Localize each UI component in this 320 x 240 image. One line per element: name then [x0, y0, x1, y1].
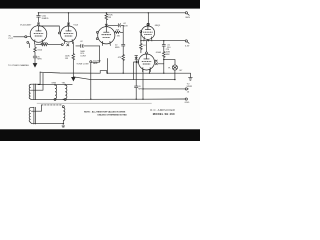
terminal output tap label [187, 42, 189, 44]
node X mark plate V2 [105, 24, 107, 26]
wire V4 bottom leads [143, 69, 150, 99]
node T2 secondary bottom dot [62, 123, 64, 125]
ground T2 ticks [62, 126, 65, 127]
node bus junction dots [107, 59, 176, 80]
capacitor C7 20MFD [135, 86, 138, 99]
resistor R4 270K [105, 13, 108, 27]
svg-text:UNLESS OTHERWISE NOTED: UNLESS OTHERWISE NOTED [97, 114, 127, 116]
wire pilot feed [164, 60, 175, 65]
node X mark pin V1B [67, 44, 69, 46]
terminal grid pins V2 [96, 31, 98, 33]
resistor R1 1500 [34, 44, 37, 56]
svg-text:470K: 470K [42, 42, 47, 44]
tube V4 label [156, 51, 162, 54]
resistor R6 value label [118, 57, 122, 59]
terminal grid pin V3 [140, 31, 142, 33]
wire interconnect light [37, 102, 152, 104]
capacitor C7 value label [138, 86, 143, 90]
wire [28, 43, 31, 48]
tube V1B label [73, 24, 78, 26]
svg-text:6CA4: 6CA4 [156, 51, 162, 54]
wire [27, 35, 30, 37]
capacitor C5 value label [115, 44, 120, 48]
wire [174, 70, 176, 80]
capacitor C4 value label [123, 23, 128, 27]
resistor R4 value label [108, 14, 113, 18]
node junction dots [63, 99, 144, 101]
svg-text:NOTE:: NOTE: [84, 112, 91, 114]
tube V1A label [20, 24, 32, 27]
node junction dots [140, 40, 164, 41]
resistor R8 [163, 52, 166, 74]
capacitor C2 value label [37, 56, 42, 60]
svg-text:6.3V: 6.3V [185, 45, 190, 47]
node TO OTHER CHANNEL label [8, 64, 30, 67]
node X mark plate V1B [67, 23, 69, 25]
lamp PL1 pilot [172, 65, 177, 70]
svg-text:AMP: AMP [93, 62, 98, 65]
resistor R1 value label [37, 49, 42, 51]
ground chassis right [189, 73, 193, 80]
node B+ label [187, 14, 189, 16]
terminal speaker [185, 88, 187, 90]
wire cathode drop V2 [106, 59, 108, 74]
svg-text:1W: 1W [117, 36, 120, 38]
terminal grid pin 2 V1A [25, 36, 27, 38]
terminal B+ [185, 12, 187, 14]
wire T2 dashed lead [42, 104, 63, 106]
capacitor C3 value label [80, 41, 84, 43]
svg-text:MFD: MFD [115, 47, 120, 49]
ground chassis arrow [72, 77, 76, 80]
terminal speaker label [187, 84, 193, 94]
svg-text:WW: WW [166, 54, 170, 56]
svg-text:V1-A 12AX7: V1-A 12AX7 [20, 24, 32, 27]
terminal grid pin V1B [58, 32, 60, 34]
transformer T1 secondary A [55, 85, 57, 99]
transformer T1 primary [29, 85, 31, 100]
terminal ground label [185, 102, 190, 104]
resistor R6 [122, 46, 125, 73]
wire ground bus bottom [31, 98, 185, 100]
svg-text:MFD: MFD [37, 59, 42, 61]
wire heater bus 2 [73, 77, 174, 80]
svg-text:GND: GND [185, 102, 190, 104]
wire input to grid [14, 36, 25, 38]
transformer T1 core [34, 84, 36, 100]
terminal T2 secondary top [62, 106, 64, 108]
capacitor C1 value label [42, 15, 49, 20]
node volume control label [76, 51, 89, 66]
svg-text:ALL RESISTOR VALUES IN OHMS: ALL RESISTOR VALUES IN OHMS [92, 111, 126, 114]
terminal cathode pin V1B [61, 44, 63, 46]
node X mark plate V1A [37, 23, 39, 25]
wire cathode bus [141, 40, 185, 42]
terminal cathode pin 3 V1A [27, 41, 29, 43]
wire grid drop [92, 46, 100, 62]
svg-text:1W: 1W [65, 58, 68, 60]
capacitor C5 20MFD [122, 44, 125, 46]
svg-text:10K: 10K [116, 30, 120, 32]
svg-text:1W: 1W [108, 17, 111, 19]
terminal top cap V4 [146, 52, 148, 54]
tube V3 6BQ5 [141, 26, 154, 41]
wire secondary top [38, 84, 72, 86]
svg-text:V1-B: V1-B [73, 24, 78, 26]
resistor R5 value label [116, 30, 120, 38]
svg-text:TONE CONT: TONE CONT [76, 64, 89, 66]
wire rail to V1B [68, 13, 70, 26]
wire rail to V3 [147, 13, 149, 26]
wire V1A plate to V1B grid [39, 26, 60, 32]
svg-text:360V: 360V [185, 17, 190, 19]
title text [150, 108, 175, 116]
wire heater drop [135, 56, 138, 86]
node secondary top dots [54, 84, 66, 86]
tube V1A 12AX7 [30, 26, 47, 44]
svg-text:MODEL SE 460: MODEL SE 460 [153, 112, 175, 116]
terminal output tap [185, 40, 187, 42]
transformer T2 primary [29, 108, 31, 123]
svg-text:GRN: GRN [51, 82, 56, 84]
svg-text:CONT: CONT [80, 55, 87, 57]
svg-text:SPKR: SPKR [187, 86, 193, 88]
terminal aux label [93, 61, 101, 65]
wire T1 screen tap [31, 73, 43, 90]
wire speaker line [143, 88, 188, 90]
wire heater bus 1 [40, 71, 190, 74]
wire V4 plate feed [146, 41, 148, 52]
svg-text:20MFD: 20MFD [42, 18, 49, 20]
resistor R8 value label [166, 49, 170, 56]
tube V4 6CA4 [139, 54, 155, 72]
tube V2 6AN8 [98, 27, 115, 46]
node secondary wire labels [51, 82, 66, 84]
capacitor C6 [162, 41, 165, 52]
svg-text:TO OTHER CHANNEL: TO OTHER CHANNEL [8, 64, 30, 67]
capacitor C3 0.02 coupling [76, 44, 100, 47]
node junction dots on rail [38, 12, 149, 13]
wire T1 plate tap [31, 72, 40, 84]
wire T2 bottom [31, 123, 62, 125]
node X mark plate V3 [147, 23, 149, 25]
capacitor C2 25MFD [33, 56, 37, 63]
tube V1B 12AX7 [61, 26, 77, 44]
note text [84, 111, 127, 117]
resistor R5 10K plate [115, 31, 123, 33]
capacitor C6 value label [167, 45, 171, 49]
svg-text:600V: 600V [123, 25, 128, 27]
transformer T2 secondary [63, 108, 65, 124]
wire screen drop [122, 25, 124, 44]
resistor R2 value label [42, 42, 47, 44]
resistor R2 470K [36, 43, 61, 45]
resistor R3 100K [72, 42, 75, 77]
node INPUT label [9, 36, 14, 40]
wire V4 pin to heater bus [134, 62, 137, 80]
capacitor C1 [37, 13, 41, 23]
wire T2 primary tap [31, 105, 42, 111]
terminal secondary bottoms [54, 98, 56, 100]
terminal ground bus [185, 98, 187, 100]
node X mark heater tap [135, 57, 137, 59]
lamp PL1 label [168, 68, 183, 72]
ground chassis V1A cathode [33, 64, 37, 67]
node junction dot [142, 88, 143, 89]
resistor R7 1K [140, 33, 143, 53]
terminal aux input [90, 61, 92, 63]
resistor R3 value label [65, 55, 70, 59]
capacitor C4 0.02 [108, 24, 123, 27]
terminal pin V4 left [137, 61, 139, 63]
svg-text:O.C. AMPLIFIER: O.C. AMPLIFIER [150, 108, 175, 112]
svg-text:6BQ5: 6BQ5 [155, 25, 161, 27]
wire [90, 63, 92, 99]
transformer T2 core [34, 107, 36, 124]
wire B+ rail [39, 12, 186, 14]
svg-text:PUT: PUT [9, 38, 14, 40]
tube V3 label [155, 25, 161, 27]
node X mark pins V4 right [155, 60, 164, 65]
transformer T1 secondary B [65, 85, 67, 99]
resistor R7 value label [143, 45, 146, 47]
